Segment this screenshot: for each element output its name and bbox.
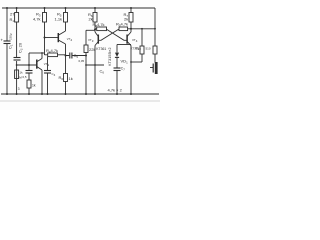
svg-text:1k: 1k — [20, 71, 24, 75]
svg-text:2k: 2k — [89, 17, 93, 22]
svg-text:C4: C4 — [52, 72, 56, 77]
transistor VT3 — [97, 35, 99, 44]
resistor R4 — [48, 53, 58, 57]
node x86 lower junction — [85, 64, 87, 66]
node R6 top junction — [94, 7, 96, 9]
node R2 bottom junction — [16, 93, 18, 95]
svg-text:510: 510 — [146, 47, 151, 51]
svg-text:22k: 22k — [89, 47, 95, 52]
node C4 bottom junction — [47, 93, 49, 95]
node R3 top junction — [44, 7, 46, 9]
wire VT2 base wire — [45, 37, 58, 39]
resistor R10 — [140, 46, 144, 54]
node R7 top junction — [130, 7, 132, 9]
svg-text:2k: 2k — [124, 17, 128, 22]
svg-text:KT361: KT361 — [96, 47, 106, 51]
node emitter junction — [65, 55, 67, 57]
svg-text:VT4: VT4 — [132, 38, 138, 43]
resistor R5 — [64, 13, 68, 23]
capacitor C4 — [44, 70, 51, 72]
transistor VT1 — [36, 60, 38, 69]
wire collector output bus — [131, 28, 155, 30]
capacitor C2 — [14, 57, 21, 59]
resistor R11 — [153, 46, 157, 54]
wire VT1 base wire — [17, 64, 37, 66]
svg-text:4,7k: 4,7k — [33, 17, 41, 22]
svg-text:KT315B×2: KT315B×2 — [107, 48, 112, 67]
resistor R2 — [15, 70, 19, 79]
resistor R4e — [64, 74, 68, 82]
node bottom-left junction — [6, 93, 8, 95]
resistor R3 — [43, 13, 47, 23]
node C5 junction — [85, 55, 87, 57]
svg-text:R44,7k: R44,7k — [46, 48, 58, 54]
svg-text:C1: C1 — [8, 44, 14, 49]
node C2 base junction — [16, 64, 18, 66]
node R1 top junction — [16, 7, 18, 9]
capacitor C5 — [66, 55, 87, 57]
capacitor C7 — [114, 67, 121, 69]
node VT4 emitter tap junction — [130, 61, 132, 63]
svg-text:C5: C5 — [74, 53, 79, 59]
resistor R1 — [15, 13, 19, 23]
svg-text:0,05: 0,05 — [79, 59, 85, 63]
svg-text:R1: R1 — [10, 17, 15, 23]
transistor VT4 — [126, 35, 128, 44]
resistor R2b — [27, 80, 31, 88]
svg-text:C6: C6 — [100, 69, 105, 75]
svg-text:+: + — [1, 38, 4, 43]
svg-text:C2 20: C2 20 — [18, 42, 24, 53]
node VT3 collector junction — [94, 29, 96, 31]
svg-text:1,1k: 1,1k — [55, 17, 63, 22]
node bus junction 2 — [154, 28, 156, 30]
node R7 bottom junction — [130, 28, 132, 30]
wire to VT3 collector — [86, 29, 95, 31]
resistor R6b — [84, 45, 88, 53]
node VT3 emitter junction — [94, 93, 96, 95]
svg-text:R84,7k: R84,7k — [93, 22, 105, 28]
node VT4 emitter ground junction — [130, 93, 132, 95]
wire faint page rule — [0, 100, 160, 102]
node base junction — [28, 64, 30, 66]
svg-text:4,7k × 2: 4,7k × 2 — [108, 88, 123, 93]
wire VD1 tap — [117, 44, 131, 46]
node link junction — [94, 64, 96, 66]
node x86 ground junction — [85, 93, 87, 95]
svg-text:VT2: VT2 — [67, 37, 73, 42]
svg-text:1k: 1k — [32, 84, 36, 88]
svg-text:0,5: 0,5 — [23, 75, 27, 79]
svg-text:VT1: VT1 — [44, 62, 50, 67]
node C3 bottom junction — [28, 93, 30, 95]
wire branch x86 — [85, 30, 87, 94]
earphone BF1 — [152, 64, 154, 73]
wire collector cross wire — [29, 52, 45, 54]
svg-text:C7: C7 — [121, 67, 125, 72]
svg-text:27: 27 — [10, 12, 15, 17]
wire bottom ground rail — [1, 93, 159, 95]
node top-left junction — [6, 7, 8, 9]
resistor R9 — [119, 27, 128, 31]
svg-text:R6: R6 — [59, 75, 64, 81]
resistor R6 — [93, 13, 97, 23]
wire left branch vertical — [6, 8, 8, 94]
transistor VT2 — [57, 33, 59, 42]
wire top supply rail — [2, 7, 155, 9]
wire cross coupling B — [99, 29, 119, 40]
svg-text:1k: 1k — [69, 76, 73, 81]
resistor R8 — [97, 27, 107, 31]
node VT1 emitter junction — [41, 93, 43, 95]
node R5 top junction — [65, 7, 67, 9]
node VD1 ground junction — [116, 93, 118, 95]
capacitor C3 — [26, 70, 33, 72]
node VT1 collector junction — [41, 52, 43, 54]
wire R10 bottom link — [131, 61, 142, 63]
svg-text:220µ: 220µ — [9, 33, 13, 40]
node emitter ground junction — [65, 93, 67, 95]
node R3 bottom junction — [44, 37, 46, 39]
node bus junction 1 — [141, 28, 143, 30]
wire cross coupling A — [107, 29, 127, 40]
svg-text:VT3: VT3 — [88, 38, 94, 43]
resistor R7 — [129, 13, 133, 23]
wire feedback drop — [28, 53, 30, 65]
wire VT2 emitter line — [65, 44, 67, 74]
capacitor C1 — [4, 40, 11, 42]
svg-text:R94,7k: R94,7k — [116, 22, 128, 28]
svg-text:VD1: VD1 — [121, 59, 129, 65]
diode VD1 — [116, 45, 118, 53]
wire emitter link — [86, 64, 104, 66]
svg-text:3: 3 — [18, 87, 20, 91]
